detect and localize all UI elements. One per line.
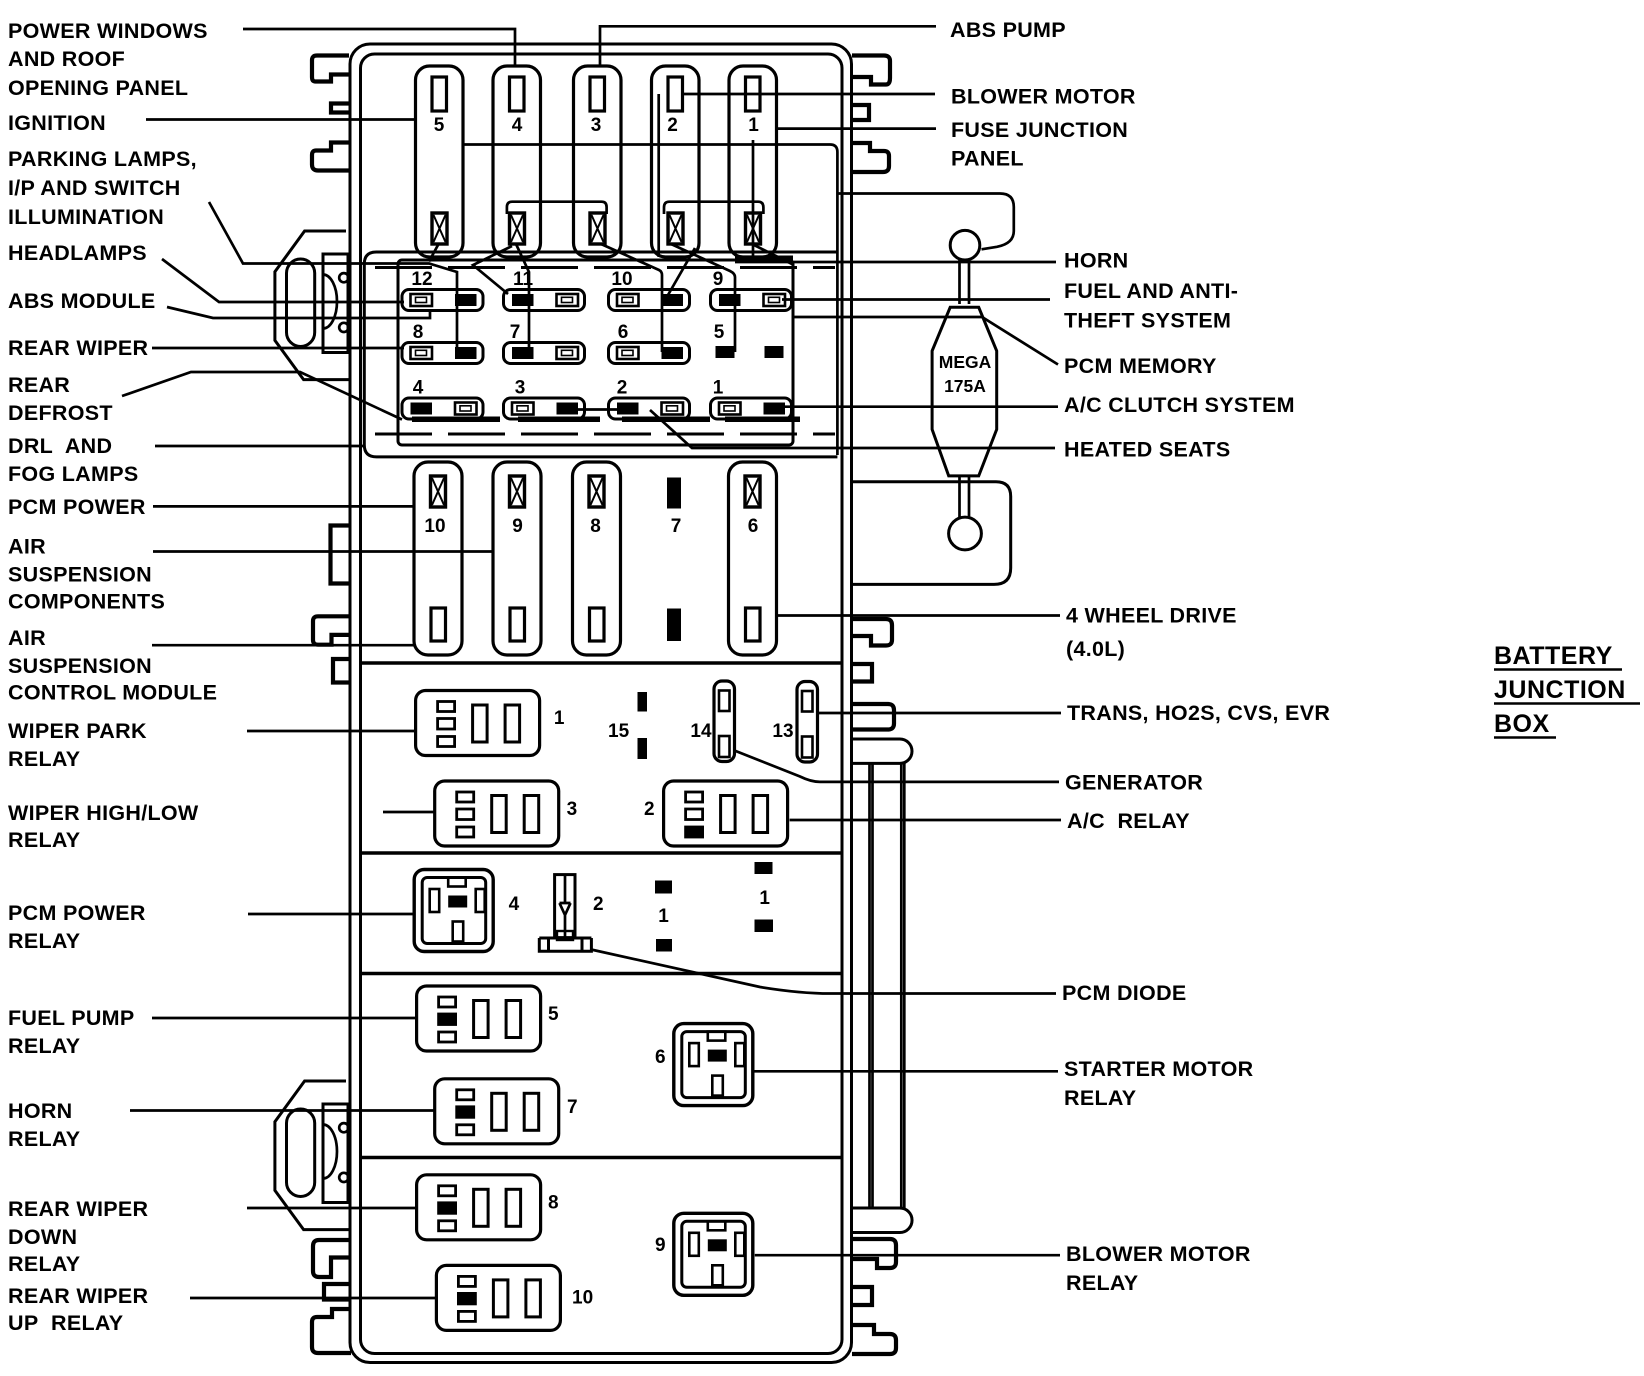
svg-text:RELAY: RELAY	[8, 828, 80, 852]
svg-text:5: 5	[714, 322, 725, 343]
svg-text:(4.0L): (4.0L)	[1066, 637, 1125, 661]
svg-text:MEGA: MEGA	[939, 352, 992, 372]
svg-text:2: 2	[593, 894, 604, 915]
svg-text:DRL AND: DRL AND	[8, 434, 112, 458]
svg-text:POWER WINDOWS: POWER WINDOWS	[8, 19, 208, 43]
svg-text:2: 2	[617, 378, 628, 399]
svg-text:3: 3	[591, 115, 602, 136]
svg-text:4 WHEEL DRIVE: 4 WHEEL DRIVE	[1066, 603, 1237, 627]
svg-text:FUEL AND ANTI-: FUEL AND ANTI-	[1064, 279, 1238, 303]
svg-text:9: 9	[713, 269, 724, 290]
svg-text:I/P AND SWITCH: I/P AND SWITCH	[8, 176, 181, 200]
svg-text:BOX: BOX	[1494, 710, 1550, 738]
svg-text:RELAY: RELAY	[8, 929, 80, 953]
svg-text:REAR WIPER: REAR WIPER	[8, 336, 149, 360]
svg-text:1: 1	[554, 708, 565, 729]
svg-text:SUSPENSION: SUSPENSION	[8, 654, 152, 678]
svg-text:2: 2	[667, 115, 678, 136]
svg-text:BATTERY: BATTERY	[1494, 642, 1613, 670]
svg-text:7: 7	[567, 1097, 578, 1118]
svg-text:15: 15	[608, 721, 630, 742]
svg-text:7: 7	[671, 516, 682, 537]
svg-text:PCM POWER: PCM POWER	[8, 495, 146, 519]
svg-text:PANEL: PANEL	[951, 146, 1024, 170]
svg-text:3: 3	[567, 799, 578, 820]
svg-text:4: 4	[509, 894, 520, 915]
svg-text:UP RELAY: UP RELAY	[8, 1311, 123, 1335]
svg-text:ILLUMINATION: ILLUMINATION	[8, 205, 164, 229]
svg-text:10: 10	[424, 516, 445, 537]
svg-text:6: 6	[748, 516, 759, 537]
svg-text:10: 10	[611, 269, 632, 290]
svg-text:1: 1	[658, 906, 669, 927]
svg-text:11: 11	[513, 269, 534, 290]
svg-text:SUSPENSION: SUSPENSION	[8, 562, 152, 586]
svg-text:HORN: HORN	[8, 1099, 73, 1123]
svg-text:PCM POWER: PCM POWER	[8, 901, 146, 925]
svg-text:9: 9	[655, 1235, 666, 1256]
svg-text:5: 5	[548, 1004, 559, 1025]
svg-text:AIR: AIR	[8, 626, 46, 650]
svg-text:FOG LAMPS: FOG LAMPS	[8, 462, 139, 486]
svg-text:DEFROST: DEFROST	[8, 401, 113, 425]
svg-text:9: 9	[512, 516, 523, 537]
svg-text:WIPER PARK: WIPER PARK	[8, 719, 147, 743]
svg-text:AND ROOF: AND ROOF	[8, 47, 125, 71]
svg-text:IGNITION: IGNITION	[8, 111, 106, 135]
svg-text:10: 10	[572, 1288, 593, 1309]
svg-text:8: 8	[413, 322, 424, 343]
svg-text:HEATED SEATS: HEATED SEATS	[1064, 437, 1230, 461]
svg-text:RELAY: RELAY	[8, 747, 80, 771]
svg-text:6: 6	[618, 322, 629, 343]
svg-text:RELAY: RELAY	[8, 1127, 80, 1151]
svg-text:REAR WIPER: REAR WIPER	[8, 1284, 149, 1308]
svg-text:12: 12	[411, 269, 432, 290]
svg-text:WIPER HIGH/LOW: WIPER HIGH/LOW	[8, 801, 199, 825]
svg-text:DOWN: DOWN	[8, 1225, 77, 1249]
svg-text:8: 8	[590, 516, 601, 537]
svg-text:A/C RELAY: A/C RELAY	[1067, 809, 1190, 833]
svg-text:1: 1	[759, 888, 770, 909]
svg-text:RELAY: RELAY	[1064, 1086, 1136, 1110]
svg-text:6: 6	[655, 1047, 666, 1068]
svg-text:HORN: HORN	[1064, 248, 1129, 272]
svg-text:RELAY: RELAY	[8, 1252, 80, 1276]
svg-text:RELAY: RELAY	[1066, 1271, 1138, 1295]
svg-text:BLOWER MOTOR: BLOWER MOTOR	[951, 84, 1136, 108]
svg-text:5: 5	[434, 115, 445, 136]
svg-text:14: 14	[690, 721, 712, 742]
svg-text:4: 4	[413, 378, 424, 399]
svg-text:THEFT SYSTEM: THEFT SYSTEM	[1064, 308, 1231, 332]
svg-text:FUSE JUNCTION: FUSE JUNCTION	[951, 118, 1128, 142]
svg-text:STARTER MOTOR: STARTER MOTOR	[1064, 1057, 1254, 1081]
svg-text:TRANS, HO2S, CVS, EVR: TRANS, HO2S, CVS, EVR	[1067, 701, 1330, 725]
svg-text:3: 3	[515, 378, 526, 399]
svg-text:2: 2	[644, 799, 655, 820]
svg-text:A/C CLUTCH SYSTEM: A/C CLUTCH SYSTEM	[1064, 393, 1295, 417]
svg-text:8: 8	[548, 1192, 559, 1213]
svg-text:REAR: REAR	[8, 373, 70, 397]
svg-text:FUEL PUMP: FUEL PUMP	[8, 1006, 135, 1030]
svg-text:COMPONENTS: COMPONENTS	[8, 589, 165, 613]
svg-text:ABS PUMP: ABS PUMP	[950, 18, 1066, 42]
svg-text:175A: 175A	[944, 376, 986, 396]
svg-text:HEADLAMPS: HEADLAMPS	[8, 241, 147, 265]
svg-text:REAR WIPER: REAR WIPER	[8, 1197, 149, 1221]
svg-text:PCM DIODE: PCM DIODE	[1062, 981, 1187, 1005]
svg-text:ABS MODULE: ABS MODULE	[8, 289, 156, 313]
svg-text:RELAY: RELAY	[8, 1034, 80, 1058]
svg-text:1: 1	[713, 378, 724, 399]
svg-text:AIR: AIR	[8, 534, 46, 558]
svg-text:7: 7	[510, 322, 521, 343]
svg-text:PARKING LAMPS,: PARKING LAMPS,	[8, 147, 197, 171]
svg-text:4: 4	[512, 115, 523, 136]
svg-text:PCM MEMORY: PCM MEMORY	[1064, 354, 1217, 378]
svg-text:CONTROL MODULE: CONTROL MODULE	[8, 680, 217, 704]
svg-text:GENERATOR: GENERATOR	[1065, 770, 1203, 794]
svg-text:13: 13	[772, 721, 793, 742]
svg-text:OPENING PANEL: OPENING PANEL	[8, 76, 188, 100]
svg-text:1: 1	[748, 115, 759, 136]
svg-text:JUNCTION: JUNCTION	[1494, 676, 1626, 704]
svg-text:BLOWER MOTOR: BLOWER MOTOR	[1066, 1242, 1251, 1266]
